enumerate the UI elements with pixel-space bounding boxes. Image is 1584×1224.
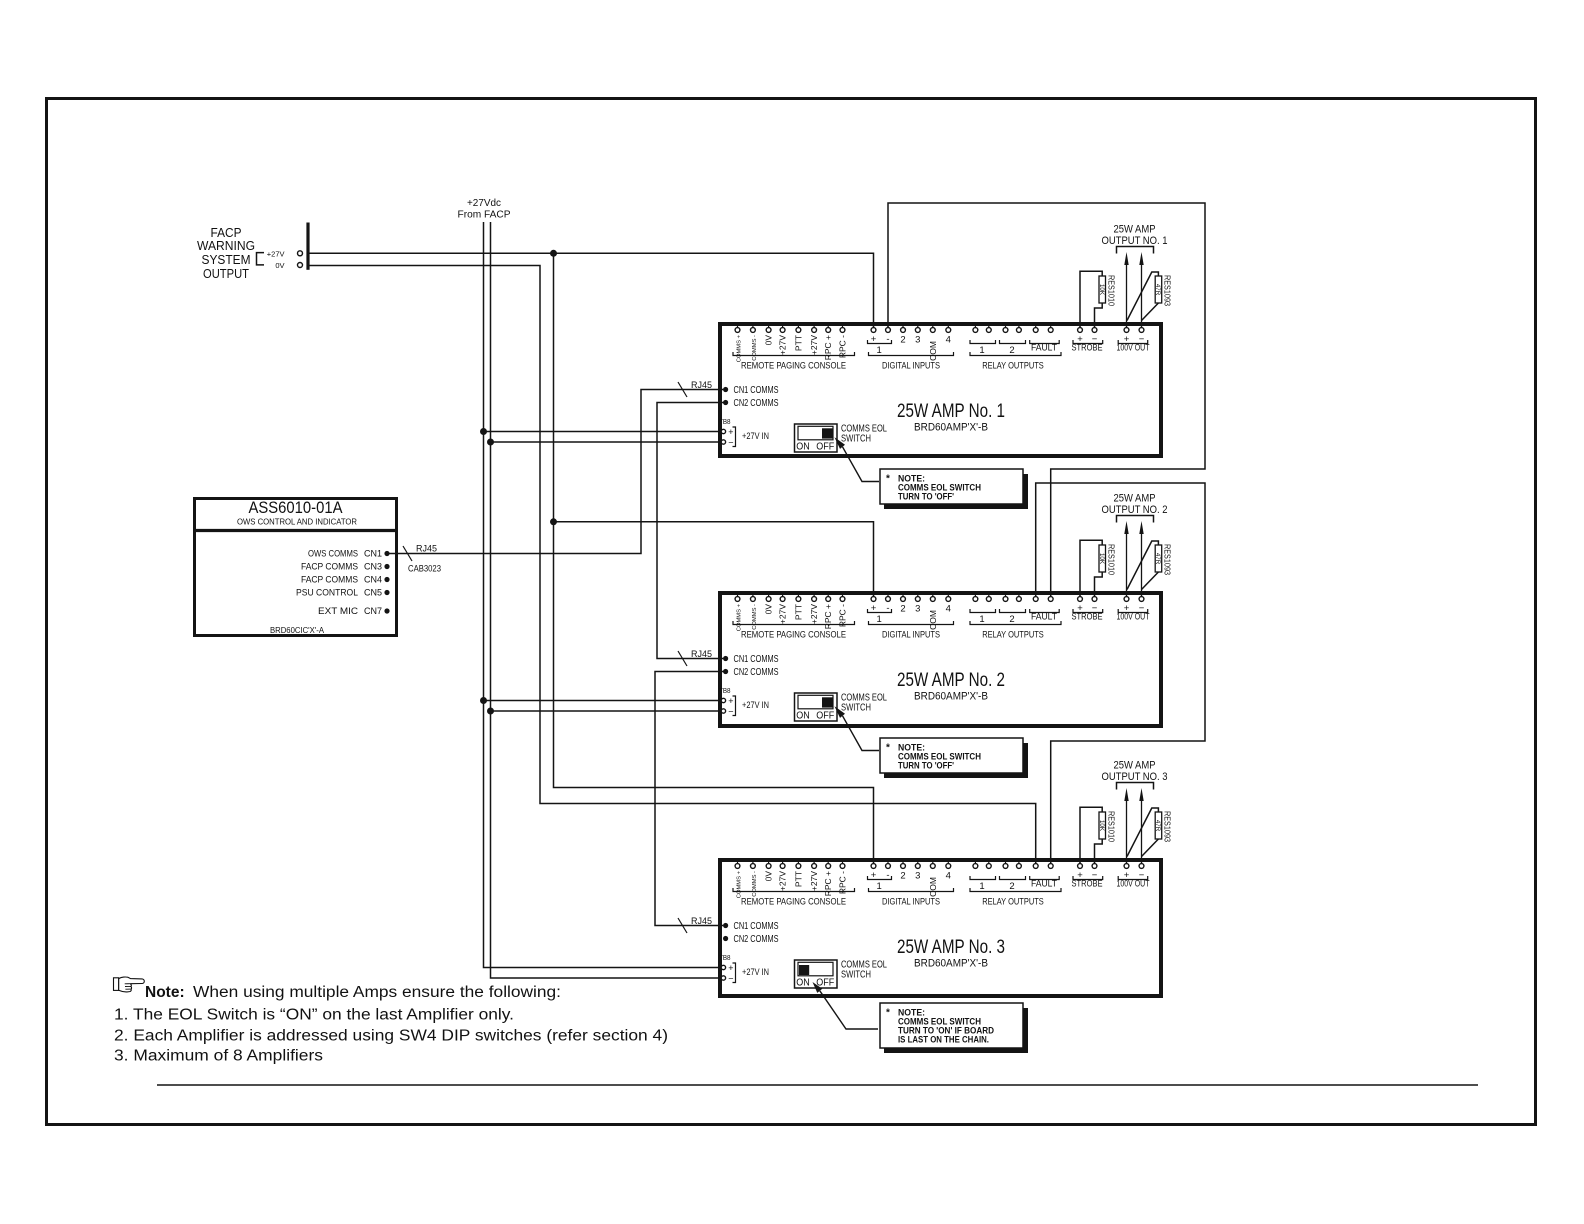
svg-text:RJ45: RJ45 (416, 544, 437, 554)
svg-text:0V: 0V (764, 335, 774, 346)
svg-text:CN3: CN3 (364, 562, 382, 572)
svg-text:RES1010: RES1010 (1107, 544, 1117, 575)
svg-text:OUTPUT NO. 3: OUTPUT NO. 3 (1102, 771, 1168, 783)
svg-text:RPC +: RPC + (823, 335, 833, 360)
svg-text:*: * (886, 474, 890, 485)
svg-text:10K: 10K (1098, 820, 1105, 832)
svg-text:2: 2 (900, 871, 905, 882)
svg-text:CN1 COMMS: CN1 COMMS (734, 654, 779, 665)
svg-text:PTT: PTT (793, 604, 803, 620)
svg-text:IS LAST ON THE CHAIN.: IS LAST ON THE CHAIN. (898, 1035, 989, 1045)
svg-text:CN2 COMMS: CN2 COMMS (734, 667, 779, 678)
svg-text:+27V IN: +27V IN (742, 700, 769, 710)
svg-text:10K: 10K (1098, 553, 1105, 565)
svg-text:SWITCH: SWITCH (841, 970, 871, 981)
svg-text:RES1093: RES1093 (1163, 275, 1173, 306)
svg-text:1: 1 (979, 614, 984, 625)
svg-text:3: 3 (915, 335, 920, 346)
svg-text:RPC -: RPC - (838, 335, 848, 358)
svg-text:STROBE: STROBE (1072, 612, 1103, 623)
svg-text:1: 1 (877, 345, 882, 356)
svg-text:4: 4 (946, 604, 951, 615)
svg-text:RES1093: RES1093 (1163, 811, 1173, 842)
svg-text:STROBE: STROBE (1072, 879, 1103, 890)
svg-text:2: 2 (900, 604, 905, 615)
svg-text:ON: ON (796, 441, 810, 453)
svg-text:+27V: +27V (809, 604, 819, 624)
svg-text:REMOTE PAGING CONSOLE: REMOTE PAGING CONSOLE (741, 897, 846, 908)
svg-text:BRD60AMP'X'-B: BRD60AMP'X'-B (914, 691, 988, 703)
svg-text:RPC +: RPC + (823, 871, 833, 896)
svg-text:RJ45: RJ45 (691, 916, 712, 926)
svg-text:CN1 COMMS: CN1 COMMS (734, 385, 779, 396)
svg-text:100V OUT: 100V OUT (1117, 879, 1150, 890)
svg-text:RES1010: RES1010 (1107, 275, 1117, 306)
svg-text:OFF: OFF (816, 441, 834, 453)
svg-text:TURN TO 'OFF': TURN TO 'OFF' (898, 492, 954, 502)
svg-text:*: * (886, 743, 890, 754)
svg-text:+27V: +27V (778, 871, 788, 891)
svg-text:TB8: TB8 (719, 686, 731, 695)
svg-text:FAULT: FAULT (1031, 343, 1057, 354)
svg-text:COMMS +: COMMS + (737, 870, 743, 898)
svg-text:CN1: CN1 (364, 549, 382, 559)
svg-text:2: 2 (1009, 881, 1014, 892)
svg-text:OFF: OFF (816, 710, 834, 722)
svg-text:TURN TO 'OFF': TURN TO 'OFF' (898, 761, 954, 771)
svg-text:COM: COM (928, 610, 938, 630)
svg-text:SWITCH: SWITCH (841, 434, 871, 445)
svg-text:2: 2 (1009, 345, 1014, 356)
svg-text:4: 4 (946, 335, 951, 346)
svg-text:FAULT: FAULT (1031, 612, 1057, 623)
svg-text:1. The EOL Switch is “ON” on t: 1. The EOL Switch is “ON” on the last Am… (114, 1007, 514, 1024)
svg-text:STROBE: STROBE (1072, 343, 1103, 354)
svg-text:2: 2 (1009, 614, 1014, 625)
svg-text:1: 1 (877, 881, 882, 892)
svg-text:COM: COM (928, 341, 938, 361)
svg-text:COM: COM (928, 877, 938, 897)
svg-text:3: 3 (915, 871, 920, 882)
svg-text:TB8: TB8 (719, 953, 731, 962)
svg-text:Note:: Note: (145, 984, 185, 1001)
svg-text:100V OUT: 100V OUT (1117, 612, 1150, 623)
svg-text:FACP: FACP (211, 226, 242, 240)
svg-text:OUTPUT: OUTPUT (203, 267, 249, 281)
svg-text:COMMS +: COMMS + (737, 334, 743, 362)
svg-text:2. Each Amplifier is addressed: 2. Each Amplifier is addressed using SW4… (114, 1028, 668, 1045)
svg-text:BRD60CIC'X'-A: BRD60CIC'X'-A (270, 625, 324, 635)
svg-text:2: 2 (900, 335, 905, 346)
svg-text:SWITCH: SWITCH (841, 703, 871, 714)
svg-text:0V: 0V (764, 871, 774, 882)
svg-text:RELAY OUTPUTS: RELAY OUTPUTS (982, 361, 1044, 372)
svg-text:0V: 0V (764, 604, 774, 615)
svg-text:4: 4 (946, 871, 951, 882)
svg-text:COMMS +: COMMS + (737, 603, 743, 631)
svg-text:+27V: +27V (809, 335, 819, 355)
svg-text:25W AMP: 25W AMP (1114, 224, 1156, 236)
svg-text:PSU CONTROL: PSU CONTROL (296, 588, 358, 598)
svg-text:ON: ON (796, 710, 810, 722)
svg-text:25W AMP: 25W AMP (1114, 760, 1156, 772)
svg-text:REMOTE PAGING CONSOLE: REMOTE PAGING CONSOLE (741, 630, 846, 641)
svg-text:OUTPUT NO. 2: OUTPUT NO. 2 (1102, 504, 1168, 516)
svg-text:RES1010: RES1010 (1107, 811, 1117, 842)
svg-text:BRD60AMP'X'-B: BRD60AMP'X'-B (914, 958, 988, 970)
svg-text:CN1 COMMS: CN1 COMMS (734, 921, 779, 932)
svg-text:+27V IN: +27V IN (742, 967, 769, 977)
svg-text:1: 1 (979, 345, 984, 356)
svg-text:25W AMP: 25W AMP (1114, 493, 1156, 505)
svg-text:3: 3 (915, 604, 920, 615)
svg-text:CAB3023: CAB3023 (408, 564, 441, 574)
svg-text:10K: 10K (1098, 284, 1105, 296)
svg-text:0V: 0V (275, 261, 284, 270)
svg-text:DIGITAL INPUTS: DIGITAL INPUTS (882, 361, 940, 372)
svg-text:CN2 COMMS: CN2 COMMS (734, 934, 779, 945)
svg-text:REMOTE PAGING CONSOLE: REMOTE PAGING CONSOLE (741, 361, 846, 372)
svg-text:RJ45: RJ45 (691, 380, 712, 390)
svg-text:DIGITAL INPUTS: DIGITAL INPUTS (882, 630, 940, 641)
svg-text:ON: ON (796, 977, 810, 989)
svg-text:47R: 47R (1154, 553, 1161, 565)
svg-text:CN7: CN7 (364, 606, 382, 616)
svg-text:+: + (728, 963, 733, 973)
svg-text:CN2 COMMS: CN2 COMMS (734, 398, 779, 409)
svg-text:FACP COMMS: FACP COMMS (301, 562, 358, 572)
svg-text:PTT: PTT (793, 335, 803, 351)
svg-text:RJ45: RJ45 (691, 649, 712, 659)
svg-text:+27Vdc: +27Vdc (467, 198, 501, 209)
svg-text:RPC -: RPC - (838, 871, 848, 894)
svg-text:+: + (728, 696, 733, 706)
svg-text:SYSTEM: SYSTEM (202, 253, 251, 267)
svg-text:+27V IN: +27V IN (742, 431, 769, 441)
svg-text:RES1093: RES1093 (1163, 544, 1173, 575)
svg-text:FAULT: FAULT (1031, 879, 1057, 890)
svg-text:1: 1 (877, 614, 882, 625)
svg-text:25W AMP No. 2: 25W AMP No. 2 (897, 670, 1005, 691)
svg-text:CN5: CN5 (364, 588, 382, 598)
svg-text:PTT: PTT (793, 871, 803, 887)
svg-text:CN4: CN4 (364, 575, 382, 585)
svg-text:25W AMP No. 3: 25W AMP No. 3 (897, 937, 1005, 958)
svg-text:WARNING: WARNING (197, 239, 255, 253)
svg-text:+: + (728, 427, 733, 437)
svg-text:RELAY OUTPUTS: RELAY OUTPUTS (982, 897, 1044, 908)
svg-text:OUTPUT NO. 1: OUTPUT NO. 1 (1102, 235, 1168, 247)
svg-text:+27V: +27V (778, 604, 788, 624)
svg-text:When using multiple Amps ensur: When using multiple Amps ensure the foll… (193, 984, 561, 1001)
svg-text:OWS CONTROL AND INDICATOR: OWS CONTROL AND INDICATOR (237, 517, 357, 527)
svg-text:COMMS -: COMMS - (752, 604, 758, 630)
svg-text:1: 1 (979, 881, 984, 892)
svg-text:3. Maximum of 8 Amplifiers: 3. Maximum of 8 Amplifiers (114, 1048, 323, 1065)
svg-text:*: * (886, 1008, 890, 1019)
svg-text:COMMS -: COMMS - (752, 335, 758, 361)
svg-text:100V OUT: 100V OUT (1117, 343, 1150, 354)
svg-text:+27V: +27V (809, 871, 819, 891)
svg-text:RELAY OUTPUTS: RELAY OUTPUTS (982, 630, 1044, 641)
svg-text:DIGITAL INPUTS: DIGITAL INPUTS (882, 897, 940, 908)
svg-text:RPC +: RPC + (823, 604, 833, 629)
svg-text:+27V: +27V (267, 250, 285, 259)
svg-text:From FACP: From FACP (458, 210, 511, 221)
svg-text:BRD60AMP'X'-B: BRD60AMP'X'-B (914, 422, 988, 434)
svg-text:COMMS -: COMMS - (752, 871, 758, 897)
svg-text:EXT MIC: EXT MIC (318, 606, 359, 616)
svg-text:47R: 47R (1154, 820, 1161, 832)
svg-text:ASS6010-01A: ASS6010-01A (249, 499, 343, 517)
svg-text:FACP COMMS: FACP COMMS (301, 575, 358, 585)
svg-text:25W AMP No. 1: 25W AMP No. 1 (897, 401, 1005, 422)
svg-text:+27V: +27V (778, 335, 788, 355)
svg-text:TB8: TB8 (719, 417, 731, 426)
svg-text:OWS COMMS: OWS COMMS (308, 549, 358, 559)
svg-text:RPC -: RPC - (838, 604, 848, 627)
svg-text:47R: 47R (1154, 284, 1161, 296)
